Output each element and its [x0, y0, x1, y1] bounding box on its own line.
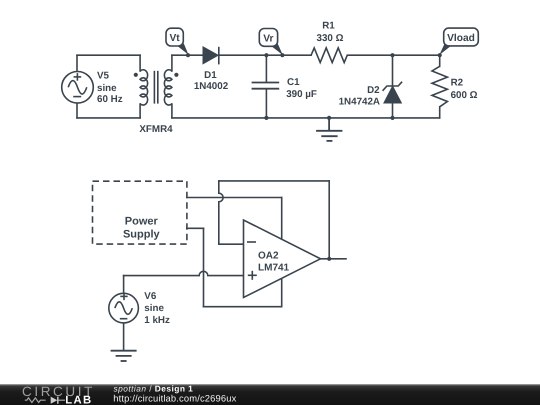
wire xfmr primary top stub [139, 55, 141, 71]
wire supply V- horizontal [187, 227, 204, 229]
voltage source V5 [62, 72, 94, 104]
power supply dashed box [93, 181, 187, 244]
wire D2 bottom stub [392, 103, 394, 118]
label V5 [97, 71, 123, 106]
xfmr secondary polarity dot [174, 73, 178, 77]
logo resistor zigzag [25, 398, 46, 403]
svg-text:http://circuitlab.com/c2696ux: http://circuitlab.com/c2696ux [113, 392, 236, 403]
wire feedback left vertical with hop [219, 181, 223, 244]
wire xfmr secondary top stub [171, 55, 173, 71]
core lines [153, 71, 155, 104]
svg-text:1N4002: 1N4002 [194, 81, 229, 92]
logo diode [51, 397, 58, 404]
wire R2 bottom stub [439, 107, 441, 118]
label Power Supply [123, 216, 161, 241]
wire D2 top stub [392, 55, 394, 86]
svg-text:Vt: Vt [170, 33, 181, 44]
secondary winding [164, 70, 172, 105]
svg-text:V5: V5 [97, 71, 110, 82]
svg-text:D2: D2 [367, 85, 380, 96]
svg-text:Vload: Vload [447, 33, 475, 44]
wire xfmr secondary bottom stub [171, 104, 173, 118]
zener diode D2 [383, 82, 403, 103]
svg-text:Power: Power [125, 216, 159, 228]
wire V- pin stub [281, 278, 283, 306]
svg-text:V6: V6 [144, 291, 157, 302]
wire R1 to R2 [347, 54, 439, 56]
wire top rail secondary to diode [172, 54, 203, 56]
node D2 top junction [390, 53, 394, 57]
svg-text:390 µF: 390 µF [286, 89, 317, 100]
node flag Vr [259, 29, 283, 56]
node Vt junction [186, 53, 190, 57]
label OA2 [258, 251, 290, 274]
svg-text:60 Hz: 60 Hz [97, 94, 123, 105]
wire inverting input [219, 243, 244, 245]
svg-text:Vr: Vr [263, 33, 273, 44]
wire V+ pin stub [281, 198, 283, 240]
label R2 [451, 78, 478, 101]
svg-text:D1: D1 [204, 70, 217, 81]
wire xfmr primary bottom stub [139, 104, 141, 118]
wire R2 top stub [439, 55, 441, 66]
wire feedback top [219, 180, 329, 182]
svg-text:R1: R1 [322, 21, 335, 32]
wire V5 bottom [77, 117, 140, 119]
svg-text:OA2: OA2 [258, 251, 279, 262]
svg-text:1N4742A: 1N4742A [339, 97, 380, 108]
wire V5 left vertical top [76, 55, 78, 71]
svg-text:1 kHz: 1 kHz [144, 315, 170, 326]
op-amp minus [247, 241, 256, 243]
capacitor C1 [252, 55, 280, 118]
wire V5 left vertical bottom [76, 103, 78, 118]
svg-text:C1: C1 [287, 77, 300, 88]
resistor R2 [432, 66, 447, 107]
node ground junction [327, 116, 331, 120]
label R1 [317, 21, 344, 45]
wire output [321, 258, 347, 260]
wire supply V- bottom [204, 306, 282, 308]
label D1 [194, 70, 229, 92]
voltage source V6 [109, 293, 139, 323]
svg-text:XFMR4: XFMR4 [139, 124, 173, 135]
wire V6 bottom [123, 323, 125, 351]
wire bottom rail [172, 117, 440, 119]
transformer XFMR4 [140, 70, 172, 105]
label D2 [339, 85, 381, 108]
node C1 top junction [264, 53, 268, 57]
wire diode to R1 [220, 54, 312, 56]
op-amp plus input marker [248, 271, 257, 280]
node Vr junction [280, 53, 284, 57]
wire supply V- vertical [203, 228, 205, 306]
op-amp OA2 [244, 220, 321, 298]
node C1 bottom junction [264, 116, 268, 120]
wire supply V+ [187, 197, 282, 199]
svg-text:330 Ω: 330 Ω [317, 33, 344, 44]
svg-text:600 Ω: 600 Ω [451, 90, 478, 101]
ground (V6) [111, 351, 137, 361]
node flag Vload [439, 28, 478, 55]
node D2 bottom junction [390, 116, 394, 120]
svg-text:LAB: LAB [65, 394, 92, 405]
label V6 [144, 291, 170, 326]
label C1 [286, 77, 317, 100]
svg-text:Supply: Supply [123, 229, 161, 241]
diode D1 [203, 47, 219, 65]
svg-text:R2: R2 [451, 78, 464, 89]
node flag Vt [166, 28, 189, 55]
svg-text:sine: sine [97, 83, 117, 94]
xfmr primary polarity dot [134, 73, 138, 77]
node Vload junction [438, 53, 442, 57]
wire feedback right vertical [328, 181, 330, 259]
primary winding [140, 70, 148, 105]
output junction dot [327, 257, 331, 261]
ground (top circuit) [316, 118, 342, 141]
wire V6 top [123, 276, 125, 294]
resistor R1 [311, 48, 347, 63]
svg-text:sine: sine [144, 303, 164, 314]
svg-text:LM741: LM741 [258, 263, 290, 274]
wire non-inverting input with hop [124, 271, 244, 275]
wire V5 top [77, 54, 140, 56]
